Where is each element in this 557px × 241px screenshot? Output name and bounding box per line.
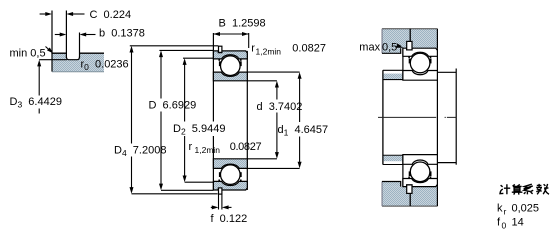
d1 top leader (shoulder)	[247, 71, 299, 73]
right ball top	[410, 53, 430, 73]
snap ring top	[219, 46, 222, 52]
dimension b arrows	[55, 34, 60, 36]
shield notches outer ring bottom	[218, 180, 220, 182]
shaft shoulder strip bottom	[384, 156, 403, 161]
D2 bottom leader	[185, 181, 215, 183]
svg-text:r: r	[189, 141, 193, 153]
D2 dimension line lower	[184, 136, 186, 177]
left face line (B extension, through bore, gap at D2 text)	[212, 33, 214, 190]
char ji	[500, 184, 510, 194]
D bottom leader	[161, 189, 213, 191]
svg-text:27: 27	[250, 141, 262, 153]
housing lip top	[382, 48, 401, 53]
d1 dimension line lower	[299, 137, 301, 164]
D4 dimension line upper	[130, 46, 134, 53]
f extension lines	[219, 194, 222, 209]
svg-text:0,5: 0,5	[382, 42, 397, 54]
svg-text:B 1.2598: B 1.2598	[219, 18, 266, 30]
D4 top leader	[130, 45, 219, 47]
svg-text:min 0,5: min 0,5	[10, 48, 46, 60]
D2 dimension line upper	[183, 58, 187, 65]
shaft surface lines	[383, 80, 438, 156]
housing block top	[382, 29, 437, 49]
right bearing right face line	[436, 48, 438, 186]
svg-text:D4 7.2008: D4 7.2008	[114, 145, 166, 159]
leader min 0,5	[46, 47, 52, 52]
d top leader (bore)	[247, 80, 277, 82]
D top leader	[159, 49, 213, 51]
svg-text:0.0827: 0.0827	[292, 43, 326, 55]
shield notches right outer bottom	[408, 177, 410, 179]
shaft shoulder bottom line	[383, 164, 403, 166]
dimension C arrows	[40, 13, 46, 15]
outer ring section bar	[52, 53, 104, 71]
d bottom leader	[247, 158, 277, 160]
B dimension line	[213, 33, 248, 35]
right inner ring top	[403, 71, 438, 81]
housing block bottom	[382, 187, 437, 207]
cage nubs right bottom	[409, 171, 411, 176]
right face line	[246, 51, 248, 190]
svg-text:1,2min: 1,2min	[256, 47, 282, 57]
svg-text:1,2min: 1,2min	[195, 145, 221, 155]
svg-text:k: k	[497, 203, 503, 215]
shaft shoulder top line	[383, 69, 403, 71]
ball top	[221, 56, 241, 76]
housing bottom outline	[382, 205, 437, 207]
cage nubs bottom ball	[219, 172, 221, 177]
bar bottom broken edge	[52, 71, 104, 73]
housing split line top	[409, 29, 411, 42]
svg-text:max: max	[359, 42, 380, 54]
D dimension line upper	[159, 50, 163, 57]
D2 top leader	[183, 57, 214, 59]
D dimension line lower	[160, 112, 162, 186]
svg-text:D3 6.4429: D3 6.4429	[10, 96, 62, 110]
right bearing outer ring bottom	[403, 179, 438, 187]
housing split line bottom	[409, 193, 411, 206]
f dimension arrows	[211, 206, 213, 208]
svg-text:f 0.122: f 0.122	[211, 213, 248, 225]
housing top outline	[382, 28, 437, 30]
abutment ring right	[437, 72, 456, 162]
inner ring bottom (of bottom half)	[213, 159, 247, 169]
leader max 0,5	[397, 44, 401, 46]
right inner ring bottom	[403, 155, 438, 165]
d1 bottom leader	[247, 167, 299, 169]
D3 line stub below label	[38, 109, 40, 114]
svg-text:0,025: 0,025	[512, 203, 540, 215]
snap ring top (into housing notch)	[407, 41, 412, 50]
svg-text:D2 5.9449: D2 5.9449	[173, 123, 225, 137]
housing right edge lines	[436, 29, 438, 206]
svg-text:C 0.224: C 0.224	[90, 9, 132, 21]
bar left face line (C extension)	[51, 11, 53, 72]
svg-text:b 0.1378: b 0.1378	[99, 28, 145, 40]
housing lip bottom	[382, 182, 401, 187]
right bearing outer ring top	[403, 48, 438, 56]
bar top surface line left of groove	[51, 52, 66, 54]
D4 bottom leader	[132, 193, 218, 195]
ball bottom	[221, 165, 241, 185]
d dimension line lower	[276, 113, 278, 154]
snap ring bottom (into housing notch)	[407, 185, 412, 194]
d1 dimension line	[298, 72, 302, 79]
B right extension line	[248, 33, 250, 48]
groove left wall extended up (b/C extension line)	[65, 11, 67, 58]
D3 dimension line	[37, 60, 41, 67]
bar top surface line right of groove	[80, 52, 105, 54]
outer ring bottom	[213, 181, 247, 190]
groove right wall extended up (b extension line)	[79, 33, 81, 58]
snap ring bottom	[219, 188, 222, 194]
cage nubs right top	[409, 59, 411, 64]
centre line	[378, 116, 456, 118]
svg-text:d 3.7402: d 3.7402	[257, 101, 303, 113]
shield notches right outer top	[408, 56, 410, 58]
svg-text:r: r	[504, 207, 507, 217]
cage nubs top ball	[219, 61, 221, 66]
shaft shoulder strip top	[384, 74, 403, 79]
inner ring top	[213, 72, 247, 81]
groove bottom with radius r0	[66, 57, 79, 60]
char suan	[512, 184, 523, 194]
shield notches outer ring top	[218, 59, 220, 61]
right ball bottom	[410, 162, 430, 182]
right bearing left face line	[402, 48, 404, 186]
shaft end face line	[382, 70, 384, 164]
svg-text:0: 0	[502, 221, 507, 231]
d dimension line	[275, 81, 279, 88]
char xi	[524, 184, 534, 194]
outer ring top	[213, 51, 247, 59]
chinese heading 计算系数	[500, 184, 549, 195]
D4 dimension line lower	[131, 157, 133, 189]
svg-text:D 6.6929: D 6.6929	[149, 100, 197, 112]
char shu	[536, 184, 549, 195]
D3 leader line from groove bottom	[39, 59, 67, 61]
svg-text:14: 14	[512, 217, 524, 229]
